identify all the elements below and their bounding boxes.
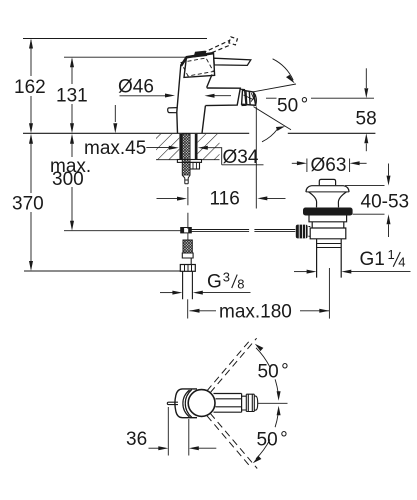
- shank through deck left dark bar: [179, 134, 182, 160]
- dimension 36 extension line right: [188, 419, 190, 456]
- spout centerline extended: [258, 402, 288, 404]
- dimension G1 1/4 left arrow: [294, 271, 307, 273]
- svg-text:Ø63: Ø63: [311, 155, 347, 176]
- top view cap crescent arcs: [183, 390, 192, 418]
- dimension G1 1/4 right arrow with underline tail: [351, 271, 411, 273]
- svg-text:40-53: 40-53: [361, 192, 410, 213]
- 50 deg upper arc with arrowhead: [273, 59, 294, 80]
- top view body outline (left bulge): [175, 389, 197, 418]
- svg-text:3: 3: [223, 269, 230, 284]
- svg-text:370: 370: [12, 194, 44, 215]
- svg-text:131: 131: [56, 86, 88, 107]
- dimension max.300 top arrow: [70, 134, 74, 144]
- svg-text:8: 8: [237, 276, 244, 291]
- dimension O46 opposite arrow: [214, 95, 231, 97]
- 40-53 extension line bottom (from gasket bottom): [353, 213, 385, 215]
- svg-text:Ø46: Ø46: [118, 77, 154, 98]
- dimension 370 top arrow: [29, 134, 33, 144]
- deck slab hatched left block: [156, 134, 179, 160]
- top view aerator end cap: [254, 394, 257, 411]
- drain mid section: [312, 222, 344, 228]
- nut under deck: [190, 162, 200, 169]
- upper 50 deg arc piece2: [275, 379, 278, 392]
- hidden cartridge dashed outline: [181, 58, 214, 76]
- drain tailpipe G1 1/4: [317, 239, 342, 278]
- 370 reference line (hose end level): [24, 270, 180, 272]
- dimension 40-53 top arrow: [388, 164, 390, 176]
- top view aerator: [246, 394, 254, 411]
- G3/8 hex nut: [180, 265, 195, 272]
- faucet head (cartridge housing): [184, 53, 215, 78]
- dimension max.45 leader arrow: [146, 147, 169, 149]
- flex hose braid lower patch: [183, 240, 192, 253]
- dimension max.180 right arrow: [300, 310, 329, 312]
- lever rod raised: [203, 40, 232, 55]
- pop-up rod lever stub on body left: [168, 108, 177, 113]
- max.300 reference line (pop-up rod level): [64, 230, 181, 232]
- deck slab bottom edge: [156, 159, 220, 161]
- shank braided column through deck: [182, 134, 190, 175]
- svg-text:4: 4: [398, 254, 405, 269]
- 50 deg lower fan line from aerator: [254, 107, 292, 130]
- dimension O34 leader with arrow pointing left at shank: [198, 146, 208, 150]
- drain funnel neck: [309, 192, 347, 207]
- lower 50 deg arc piece1: [277, 406, 281, 416]
- lever pivot (dark): [194, 51, 208, 58]
- dimension 162 top arrow: [29, 39, 33, 49]
- deck slab hatched right block: [198, 134, 220, 160]
- svg-text:50°: 50°: [257, 429, 288, 451]
- svg-text:36: 36: [126, 429, 147, 450]
- dimension G3/8 leader (underline) with left-pointing arrow: [203, 292, 251, 294]
- flex hose braid upper patch: [182, 175, 190, 184]
- dimension 370 line: [30, 136, 32, 269]
- dimension max.300 bottom arrow: [70, 221, 74, 231]
- 50 deg lower arc with arrowhead: [262, 129, 278, 142]
- faucet centerline below tube (max180 extension): [187, 299, 189, 318]
- dimension O63 left arrow and tick: [292, 162, 297, 164]
- pop-up rod cross fitting: [181, 228, 192, 233]
- G3/8 tube end: [183, 271, 193, 299]
- svg-text:max.45: max.45: [84, 138, 146, 159]
- extension line at aerator outlet (x=256): [255, 107, 257, 209]
- drain cap dome: [319, 179, 335, 185]
- dimension O63 right arrow and tick: [360, 162, 367, 164]
- upper 50 deg arc piece1 with arrowheads: [256, 348, 270, 367]
- svg-text:50°: 50°: [258, 361, 289, 383]
- hose centerline segment (116 extension): [187, 187, 189, 229]
- svg-text:50°: 50°: [277, 95, 308, 117]
- shank through deck right dark bar: [195, 134, 198, 160]
- dimension 40-53 bottom arrow: [388, 224, 390, 237]
- spout: [205, 88, 240, 106]
- svg-text:58: 58: [356, 109, 377, 130]
- drain lower body: [310, 228, 346, 239]
- dimension 36 right arrow: [199, 447, 217, 449]
- dimension max.300 line: [71, 136, 73, 228]
- aerator end cap: [253, 92, 256, 105]
- dimension max.180 left arrow: [190, 310, 217, 312]
- dimension 36 left arrow: [149, 447, 160, 449]
- dimension 131 line: [71, 59, 73, 131]
- dimension O46 leader line and right-pointing arrow: [120, 95, 167, 97]
- lever horizontal (closed position) bar: [214, 58, 251, 65]
- faucet head thick top edge: [181, 53, 214, 66]
- aerator thread lines: [246, 91, 250, 105]
- lever rod tip (open parallelogram): [229, 37, 238, 45]
- dimension 162 line: [30, 40, 32, 131]
- top view spout tube: [214, 394, 243, 413]
- svg-text:116: 116: [210, 188, 240, 209]
- lower 50 deg arc piece2: [256, 440, 270, 459]
- washer under deck: [177, 160, 201, 163]
- svg-text:300: 300: [52, 169, 84, 190]
- dimension 116 left arrow: [157, 198, 179, 200]
- svg-text:162: 162: [14, 77, 46, 98]
- drain flange gasket (dark): [303, 208, 353, 216]
- hose connector rings: [182, 253, 193, 265]
- drain rod knob (knurled, dark): [296, 225, 308, 239]
- dimension 58 lower arrow: [365, 144, 367, 152]
- svg-text:max.180: max.180: [219, 302, 292, 323]
- dimension 58 upper arrow: [365, 68, 367, 88]
- top view pop-up rod bar: [167, 402, 178, 404]
- svg-text:Ø34: Ø34: [223, 147, 259, 168]
- spout outlet height reference line: [266, 97, 374, 99]
- deck surface line: [23, 132, 375, 134]
- dimension O46 extension line down to deck with arrow: [114, 105, 116, 122]
- reference line top of closed lever (131 datum): [64, 56, 188, 58]
- svg-text:G: G: [207, 271, 222, 292]
- dimension 131 bottom arrow: [70, 123, 74, 133]
- swivel range dashed line lower: [207, 413, 257, 468]
- 40-53 extension line top (from cap rim): [345, 185, 385, 187]
- aerator (tilted threaded outlet): [242, 90, 256, 105]
- dimension 162 bottom arrow: [29, 123, 33, 133]
- top view spout neck: [242, 394, 247, 411]
- 50 deg upper fan line from aerator: [254, 84, 297, 92]
- hose line below fitting: [187, 233, 189, 239]
- dimension 370 bottom arrow: [29, 261, 33, 271]
- dimension 116 right arrow: [267, 197, 286, 199]
- faucet body outline: [177, 65, 212, 133]
- swivel range dashed line upper: [207, 338, 257, 393]
- horizontal pop-up rod (double line): [191, 230, 295, 232]
- drain upper body: [309, 216, 347, 222]
- spout neck ring: [241, 89, 247, 105]
- dimension 36 extension line left (rod tip): [167, 407, 169, 456]
- reference line top of raised lever (162 datum): [23, 38, 207, 40]
- dimension G3/8 left arrow: [160, 292, 173, 294]
- svg-text:G1: G1: [360, 249, 385, 270]
- svg-text:1: 1: [388, 247, 395, 262]
- drain centerline (max180 extension): [328, 268, 330, 319]
- drain cap rim: [306, 191, 349, 193]
- top view main circle: [188, 390, 215, 417]
- dimension 131 top arrow: [70, 57, 74, 67]
